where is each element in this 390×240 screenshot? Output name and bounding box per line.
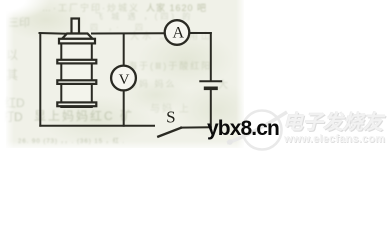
wire right vertical lower (210, 90, 212, 127)
band 2 (57, 80, 96, 84)
band 1 (57, 60, 96, 64)
wire top middle segment (92, 32, 164, 34)
wire left vertical (39, 34, 41, 126)
wire top-left segment (40, 32, 68, 35)
collar (59, 39, 95, 44)
ammeter A (165, 20, 190, 45)
band 3 (57, 102, 96, 106)
wire bottom right segment (181, 126, 211, 128)
voltmeter branch lower wire (123, 91, 125, 126)
elecfans watermark text (283, 106, 390, 135)
cap (trapezoid) (62, 34, 93, 39)
switch S blade (158, 128, 181, 137)
svg-text:S: S (166, 108, 175, 127)
svg-text:A: A (173, 24, 185, 41)
scanned paper background (6, 0, 244, 148)
voltmeter branch upper wire (123, 34, 125, 66)
svg-text:V: V (119, 72, 130, 88)
wire bottom left segment (40, 125, 154, 127)
white fades on paper edges (0, 0, 14, 159)
wire right vertical upper (210, 33, 212, 80)
ybx8.cn watermark text (207, 118, 279, 139)
battery negative plate (206, 87, 216, 91)
elecfans logo swoosh (light gray) (225, 103, 295, 159)
voltmeter V (111, 66, 136, 91)
battery positive plate (200, 80, 221, 82)
body (61, 44, 92, 108)
circuit schematic (0, 0, 390, 159)
wire ammeter to top-right corner (190, 32, 211, 34)
electrolytic cell (device under test) (57, 19, 96, 108)
faint bleed-through text rows (42, 1, 140, 14)
knob (72, 19, 80, 34)
